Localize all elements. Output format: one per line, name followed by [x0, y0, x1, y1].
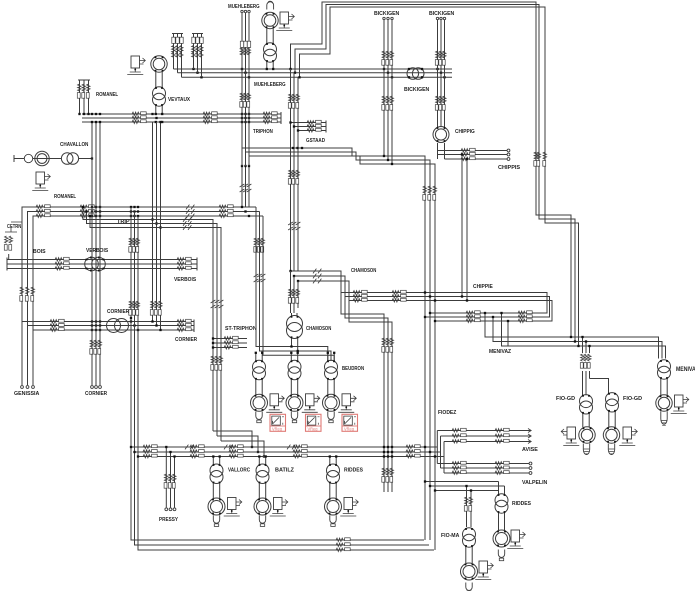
svg-text:FIO-GD: FIO-GD — [623, 396, 642, 402]
svg-text:MENIVAZ: MENIVAZ — [676, 367, 695, 373]
svg-text:MUEHLEBERG: MUEHLEBERG — [228, 4, 260, 10]
svg-text:CHAMOSON: CHAMOSON — [351, 268, 376, 274]
svg-text:RIDDES: RIDDES — [512, 501, 531, 507]
svg-text:VALLORC: VALLORC — [228, 468, 251, 474]
svg-text:CHIPPIE: CHIPPIE — [473, 284, 493, 290]
svg-text:PRESSY: PRESSY — [159, 517, 178, 523]
svg-text:CETRN: CETRN — [7, 224, 21, 230]
svg-text:BEUDRON: BEUDRON — [342, 366, 364, 372]
svg-text:VReg: VReg — [272, 427, 282, 432]
svg-text:FIODEZ: FIODEZ — [438, 410, 457, 416]
svg-text:CORNIER: CORNIER — [107, 309, 130, 315]
svg-text:VReg: VReg — [308, 427, 318, 432]
svg-text:GENISSIA: GENISSIA — [14, 391, 40, 397]
svg-text:CORNIER: CORNIER — [85, 391, 108, 397]
svg-text:ST-TRIPHON: ST-TRIPHON — [225, 326, 257, 332]
svg-text:VReg: VReg — [344, 427, 354, 432]
svg-text:MENIVAZ: MENIVAZ — [489, 349, 511, 355]
svg-text:FIO-MA: FIO-MA — [441, 533, 459, 539]
svg-text:MUEHLEBERG: MUEHLEBERG — [254, 82, 286, 88]
svg-text:AVISE: AVISE — [522, 447, 538, 453]
svg-text:CHAVALLON: CHAVALLON — [60, 142, 88, 148]
svg-text:BICKIGEN: BICKIGEN — [374, 11, 399, 17]
svg-text:FIO-GD: FIO-GD — [556, 396, 575, 402]
svg-text:BOIS: BOIS — [33, 249, 46, 255]
svg-text:CORNIER: CORNIER — [175, 337, 198, 343]
svg-text:BICKIGEN: BICKIGEN — [429, 11, 454, 17]
svg-text:VALPELIN: VALPELIN — [522, 480, 547, 486]
svg-text:ROMANEL: ROMANEL — [54, 194, 76, 200]
svg-text:GSTAAD: GSTAAD — [306, 138, 325, 144]
svg-text:CHIPPIG: CHIPPIG — [455, 129, 475, 135]
svg-text:CHIPPIS: CHIPPIS — [498, 165, 520, 171]
svg-text:ROMANEL: ROMANEL — [96, 92, 118, 98]
svg-text:BICKIGEN: BICKIGEN — [404, 87, 429, 93]
svg-text:VERBOIS: VERBOIS — [86, 248, 108, 254]
svg-text:TRIPHON: TRIPHON — [253, 129, 273, 135]
svg-text:RIDDES: RIDDES — [344, 468, 363, 474]
svg-text:VERBOIS: VERBOIS — [174, 277, 196, 283]
svg-text:BATILZ: BATILZ — [275, 468, 294, 474]
svg-text:VEVTAUX: VEVTAUX — [168, 97, 190, 103]
svg-text:CHAMOSON: CHAMOSON — [306, 326, 331, 332]
